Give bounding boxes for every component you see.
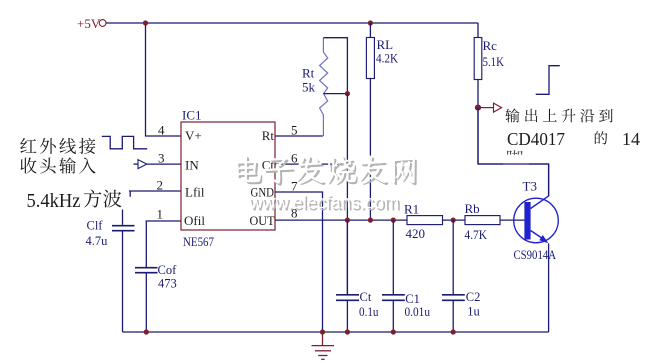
output arrow: [481, 107, 494, 109]
svg-text:0.1u: 0.1u: [359, 305, 379, 319]
node Rt tap junction: [345, 91, 350, 96]
wire V+ drop to pin 4: [146, 23, 182, 136]
svg-text:T3: T3: [523, 179, 537, 194]
resistor RL 4.2K: [369, 23, 371, 38]
svg-text:IC1: IC1: [182, 108, 202, 123]
svg-text:Cof: Cof: [158, 263, 178, 277]
node C2 junction: [451, 218, 456, 223]
svg-text:0.01u: 0.01u: [405, 305, 431, 319]
capacitor C1 0.01u: [392, 220, 394, 295]
wire Cof bottom lead: [145, 273, 147, 332]
wire Rc to collector: [478, 164, 549, 196]
svg-text:Clf: Clf: [87, 219, 104, 233]
node junction +5V/RL: [368, 20, 373, 25]
watermark 电子发烧友网: [235, 155, 417, 185]
svg-text:3: 3: [158, 150, 165, 165]
svg-text:2: 2: [157, 177, 164, 192]
svg-text:C2: C2: [466, 290, 481, 304]
rising edge symbol: [536, 66, 560, 95]
svg-text:14: 14: [622, 129, 640, 149]
wire pin 6 horizontal: [275, 163, 347, 165]
capacitor Cof 473: [135, 267, 158, 269]
watermark www.elecfans.com: [248, 192, 401, 216]
capacitor C2 1u: [452, 220, 454, 295]
wire Rt top bracket: [323, 38, 347, 94]
ground symbol: [312, 332, 335, 359]
label clipped 脚: [506, 150, 523, 166]
node rail/GND pin: [320, 329, 325, 334]
svg-text:5k: 5k: [302, 80, 316, 95]
node rail/Cof: [144, 329, 149, 334]
svg-text:5.1K: 5.1K: [483, 54, 505, 69]
svg-text:V+: V+: [185, 128, 202, 143]
resistor R1 420: [407, 216, 443, 225]
svg-text:CD4017: CD4017: [507, 129, 565, 149]
svg-text:www.elecfans.com: www.elecfans.com: [248, 192, 399, 214]
wire bottom ground rail: [123, 331, 549, 333]
node rail/C2: [451, 329, 456, 334]
svg-text:Rt: Rt: [302, 65, 315, 80]
svg-text:IN: IN: [185, 157, 199, 172]
node OUT/C1 junction: [391, 218, 396, 223]
wire pin 6 Ct net vertical: [346, 94, 348, 295]
svg-text:NE567: NE567: [183, 234, 214, 249]
svg-text:1: 1: [157, 206, 164, 221]
wire pin 1 Ofil to Cof: [146, 221, 181, 268]
resistor Rc 5.1K: [477, 23, 479, 38]
node rail/C1: [391, 329, 396, 334]
svg-text:5: 5: [291, 122, 298, 137]
label 5.4kHz squarewave: [100, 188, 129, 210]
wire top +5V rail: [106, 22, 478, 24]
resistor Rt 5k zigzag: [320, 38, 328, 136]
svg-text:Rb: Rb: [465, 201, 480, 216]
svg-text:Ct: Ct: [360, 290, 372, 304]
wire Rc to collector (overdraw): [478, 108, 549, 196]
svg-text:+5V: +5V: [77, 16, 101, 31]
svg-text:6: 6: [291, 150, 298, 165]
svg-text:Rc: Rc: [483, 38, 498, 53]
transistor T3 CS9014A: [514, 198, 559, 243]
squarewave input symbol: [102, 136, 147, 148]
node pin6 junction: [345, 162, 350, 167]
wire Rt tap: [324, 93, 348, 95]
node junction +5V/V+: [143, 20, 148, 25]
input signal triangle: [134, 163, 139, 165]
wire pin 5 to Rt: [275, 135, 323, 137]
wire pin 8 OUT line: [275, 219, 407, 221]
wire Rb to base: [500, 219, 524, 221]
resistor Rb 4.7K: [465, 216, 500, 225]
svg-text:Ofil: Ofil: [184, 213, 205, 228]
node OUT/RL junction: [368, 218, 373, 223]
svg-text:4.2K: 4.2K: [376, 50, 399, 65]
node OUT/Ct junction: [345, 218, 350, 223]
wire R1 to Rb: [443, 219, 466, 221]
label output rising edge 输出上升沿到: [505, 108, 519, 122]
svg-text:4.7u: 4.7u: [86, 234, 109, 248]
wire pin 3 IN: [147, 163, 181, 165]
wire Clf top lead: [122, 191, 124, 226]
wire emitter to rail: [548, 244, 550, 333]
wire pin 7 GND drop: [275, 192, 323, 332]
svg-text:4: 4: [158, 122, 165, 137]
svg-text:1u: 1u: [467, 304, 480, 318]
op-amp/IC U1 NE567 tone decoder box: [181, 122, 275, 230]
svg-text:420: 420: [406, 226, 426, 241]
capacitor Ct 0.1u: [346, 220, 348, 295]
svg-text:Rt: Rt: [262, 128, 275, 143]
node rail/Ct: [345, 329, 350, 334]
svg-text:CS9014A: CS9014A: [514, 248, 557, 262]
svg-text:473: 473: [158, 276, 177, 290]
node output junction: [475, 105, 481, 111]
svg-text:R1: R1: [404, 201, 419, 216]
svg-text:Lfil: Lfil: [185, 185, 205, 200]
svg-text:C1: C1: [405, 292, 420, 306]
wire Clf bottom lead: [122, 231, 124, 332]
wire pin 2 Lfil: [123, 190, 182, 192]
label infrared input 红外线接收头输入: [20, 138, 36, 153]
svg-text:5.4kHz: 5.4kHz: [27, 190, 81, 212]
capacitor Clf: [112, 225, 135, 227]
svg-text:4.7K: 4.7K: [465, 227, 488, 242]
